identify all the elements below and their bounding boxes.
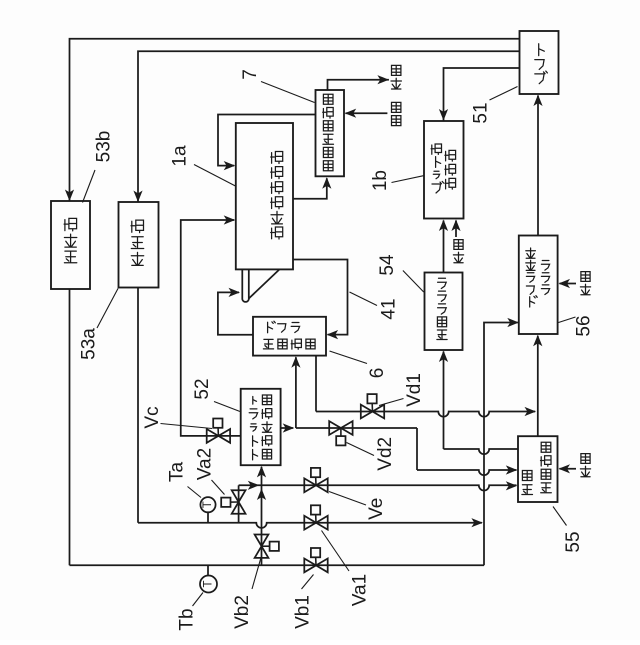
wire: hot water HX to drain recovery tank — [537, 336, 539, 436]
box 温水タンク (hot water tank 54) — [425, 273, 463, 351]
svg-text:54: 54 — [377, 254, 398, 276]
svg-text:53a: 53a — [79, 328, 100, 360]
svg-text:41: 41 — [378, 298, 399, 319]
wire: feed water into hot water HX — [560, 468, 577, 470]
svg-text:Ve: Ve — [366, 498, 387, 520]
sensor Tb — [207, 565, 209, 576]
wire: drain recovery tank to boiler feed — [537, 96, 539, 236]
washer discharge chute — [242, 269, 249, 302]
wire: fresh water inlet (shinsui) — [346, 112, 388, 114]
svg-text:Vc: Vc — [142, 406, 163, 428]
valve Vd1 — [361, 405, 373, 419]
wire: boiler steam to batch washer — [444, 68, 520, 121]
wire 41: washer outlet down to drain HX right side — [293, 260, 348, 335]
wire: dryer loop top line to boiler — [138, 51, 520, 202]
svg-text:1b: 1b — [370, 170, 391, 191]
label 給水 (hot water HX) — [580, 466, 590, 477]
box バッチ式洗濯機 (batch washer 1b) — [424, 121, 464, 219]
box 新水熱交換器 (fresh water HX 7) — [316, 90, 345, 176]
box 温水熱交換器 (hot water HX 55) — [518, 436, 558, 502]
box 仕上機 (finisher 53b) — [51, 201, 90, 289]
svg-text:Vd2: Vd2 — [375, 437, 396, 471]
svg-text:Tb: Tb — [177, 608, 198, 630]
svg-text:T: T — [202, 501, 214, 508]
wire: right collector riser to drain recovery tank — [484, 323, 518, 566]
svg-text:7: 7 — [240, 69, 261, 80]
box ドレン回収タンク (drain recovery tank 56) — [519, 236, 558, 335]
wire: feed water arrow into batch washer — [455, 221, 457, 238]
wire: finisher drain line — [69, 289, 71, 565]
svg-text:52: 52 — [192, 378, 213, 399]
valve Vb2 — [255, 535, 269, 547]
wire: drain HX left to washer chute — [218, 292, 253, 334]
wire: riser from finisher drain through Vb2 to flash generator — [261, 467, 263, 566]
box 連続式洗濯機 (continuous washer 1a) — [236, 123, 293, 269]
svg-text:6: 6 — [367, 368, 388, 379]
label 排水 — [391, 78, 401, 89]
flow arrow on Ve header — [248, 481, 259, 490]
wire: drain HX bottom to Vd1 line — [315, 356, 317, 412]
wire: riser into drain HX bottom — [295, 357, 297, 428]
chute diagonal — [249, 270, 279, 299]
wire: washer to fresh HX riser — [293, 178, 327, 199]
label 新水 — [392, 116, 401, 126]
svg-text:Va1: Va1 — [350, 574, 371, 606]
svg-text:Vb2: Vb2 — [232, 595, 253, 629]
box 乾燥機 (dryer 53a) — [119, 202, 159, 288]
box ボイラ (boiler 51) — [520, 31, 559, 94]
wire: finisher loop top line to boiler — [70, 39, 520, 201]
wire: Vd1 drain line to recovery riser — [316, 412, 535, 417]
sensor Ta — [207, 512, 209, 522]
wire: Vd2 drain line to hot water HX — [296, 427, 417, 429]
wire: Va2 branch from dryer drain to Ve header — [238, 485, 240, 522]
wire: Ve header from Va2 to hot water HX — [239, 485, 517, 490]
label 給水 (drain tank) — [580, 284, 590, 295]
label 給水 (batch) — [453, 252, 463, 263]
svg-text:51: 51 — [471, 102, 492, 123]
flow arrow on riser — [257, 489, 266, 501]
valve Va1 — [304, 516, 316, 530]
wire: fresh HX to continuous washer inlet — [218, 115, 316, 166]
svg-text:Vb1: Vb1 — [293, 595, 314, 629]
valve Va2 — [232, 490, 246, 502]
box ドレン熱交換器 (drain HX 6) — [253, 317, 326, 356]
wire: hot water tank to batch washer — [443, 221, 445, 273]
valve Vc — [207, 429, 219, 443]
wire: flash generator steam through Vc to washer — [181, 220, 241, 436]
box フラッシュ蒸気発生器 (flash steam generator 52) — [241, 389, 281, 465]
svg-text:Ta: Ta — [167, 462, 188, 483]
svg-text:Va2: Va2 — [194, 448, 215, 480]
svg-text:T: T — [203, 580, 215, 587]
wire: flash generator steam out to drain HX bottom — [281, 427, 294, 429]
svg-text:55: 55 — [563, 531, 584, 552]
svg-text:53b: 53b — [94, 131, 115, 163]
wire: dryer drain line — [137, 288, 139, 523]
wire: drain out of fresh HX (haisui) — [328, 80, 389, 90]
valve Ve — [304, 478, 316, 492]
valve Vd2 — [329, 421, 341, 435]
svg-text:Vd1: Vd1 — [404, 373, 425, 407]
svg-text:56: 56 — [574, 315, 595, 336]
wire: feed water into drain recovery tank — [560, 283, 577, 285]
svg-text:1a: 1a — [170, 145, 191, 167]
wire: hot water HX to hot water tank — [444, 449, 519, 454]
valve Vb1 — [304, 559, 316, 573]
